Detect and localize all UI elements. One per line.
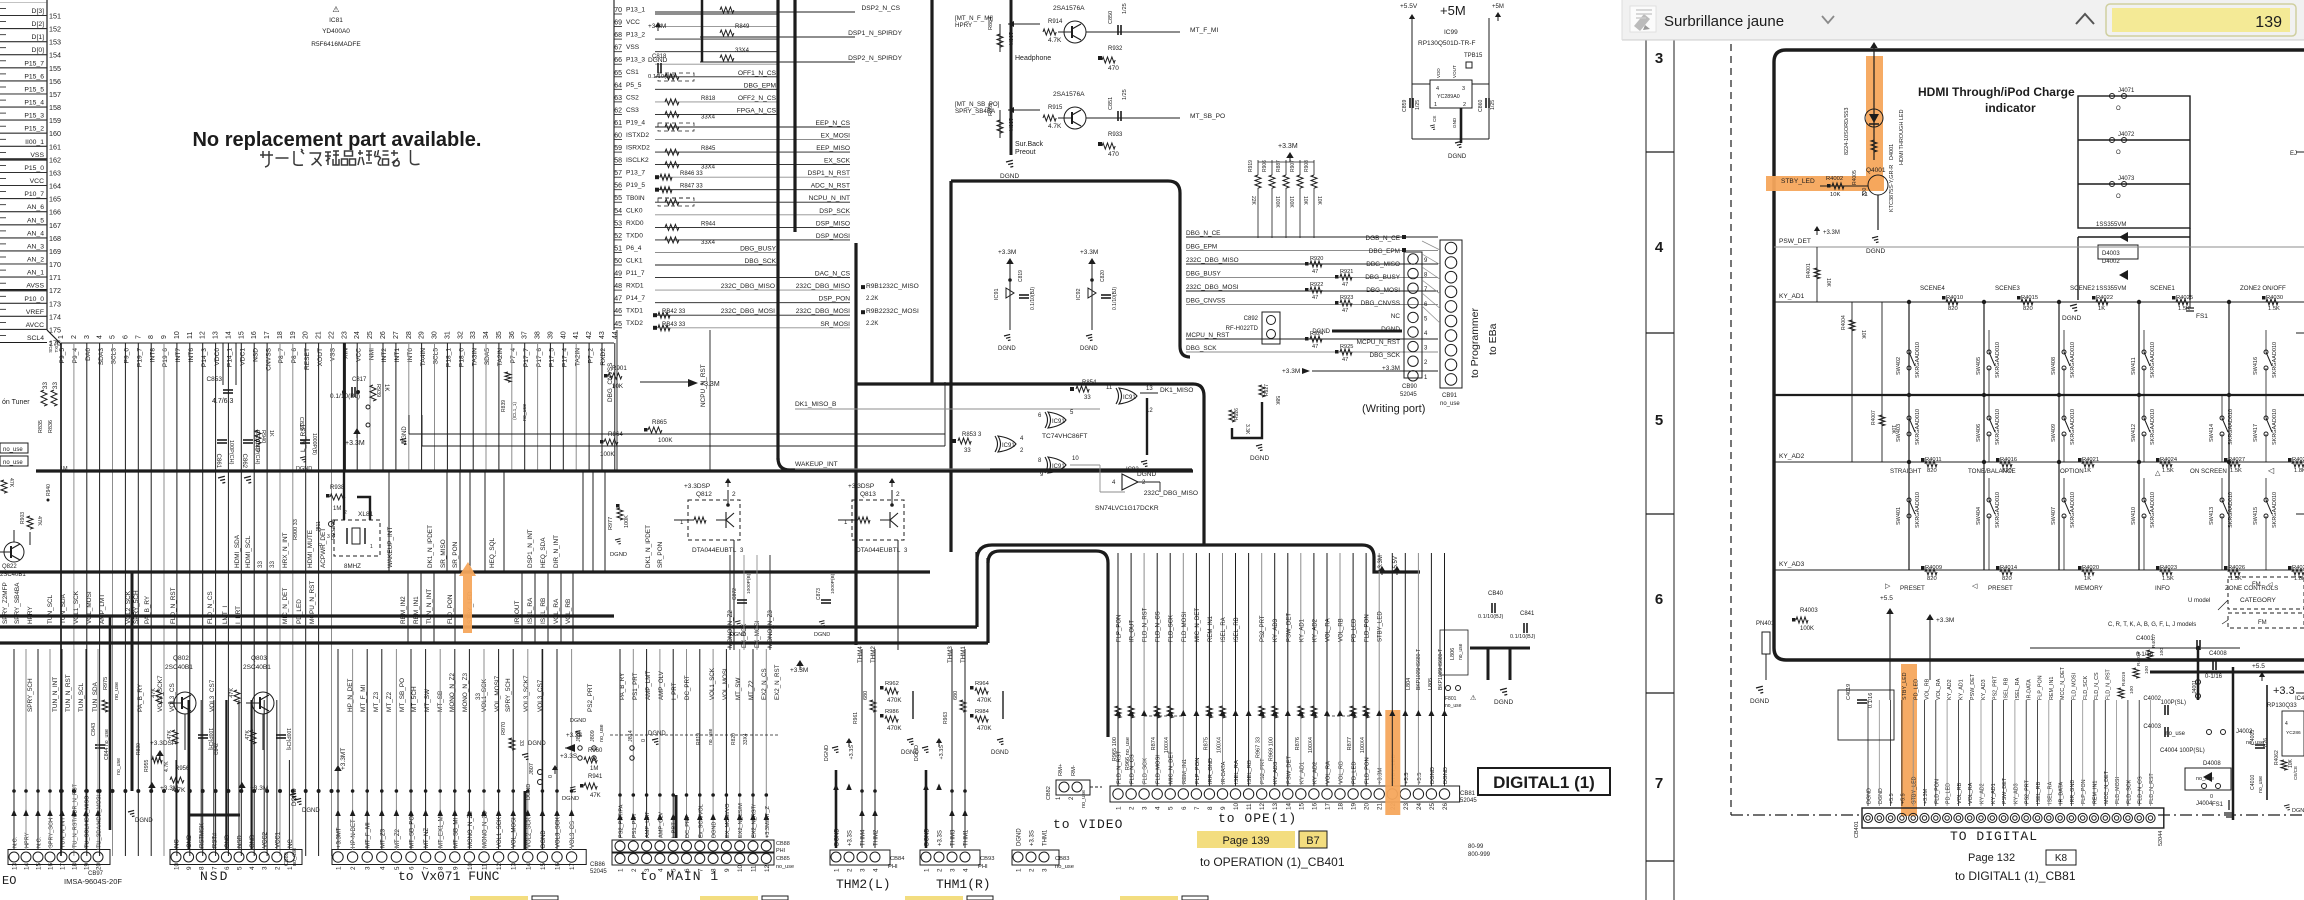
- svg-text:64: 64: [614, 82, 622, 89]
- svg-text:100X4: 100X4: [1164, 737, 1170, 753]
- svg-text:P13_2: P13_2: [626, 32, 645, 39]
- svg-text:NMI: NMI: [368, 348, 375, 360]
- svg-text:AN_5: AN_5: [27, 217, 44, 224]
- svg-text:IC40: IC40: [2295, 696, 2304, 702]
- svg-text:+5.5: +5.5: [1900, 793, 1906, 804]
- svg-text:C, R, T, K, A, B, G, F, L, J m: C, R, T, K, A, B, G, F, L, J models: [2108, 622, 2196, 628]
- svg-text:PHI: PHI: [978, 864, 988, 870]
- svg-text:SW402: SW402: [1896, 357, 1902, 375]
- svg-text:R933: R933: [1108, 132, 1123, 138]
- svg-text:THM2(L): THM2(L): [836, 877, 891, 892]
- svg-text:DGND: DGND: [991, 750, 1009, 756]
- svg-text:SDA4: SDA4: [48, 341, 53, 353]
- svg-text:VOL_RB: VOL_RB: [1925, 678, 1931, 700]
- svg-text:100X4: 100X4: [1360, 737, 1366, 753]
- svg-text:XL81: XL81: [358, 511, 374, 518]
- svg-text:U model: U model: [2188, 598, 2210, 604]
- svg-text:232C_DBG_MOSI: 232C_DBG_MOSI: [1186, 284, 1239, 291]
- svg-text:no_use: no_use: [3, 447, 23, 453]
- svg-text:6: 6: [1655, 591, 1663, 608]
- svg-text:2: 2: [274, 866, 281, 870]
- svg-text:VOL_RA: VOL_RA: [1968, 782, 1974, 804]
- svg-text:FLD_N_CS: FLD_N_CS: [2094, 672, 2100, 700]
- svg-text:DGND: DGND: [562, 796, 579, 802]
- svg-text:FLD_PON: FLD_PON: [1365, 757, 1371, 784]
- svg-text:SKRGAAD010: SKRGAAD010: [1915, 492, 1921, 528]
- svg-text:(Writing port): (Writing port): [1362, 403, 1425, 415]
- svg-text:R864: R864: [608, 431, 623, 438]
- svg-text:+5.5: +5.5: [1417, 773, 1423, 784]
- svg-text:173: 173: [49, 299, 61, 308]
- svg-text:17: 17: [1325, 802, 1332, 810]
- svg-text:4.7/6.3: 4.7/6.3: [212, 398, 234, 405]
- svg-text:+3.3M: +3.3M: [1080, 249, 1098, 256]
- svg-text:3.3K: 3.3K: [1244, 424, 1250, 435]
- svg-text:10K: 10K: [1825, 278, 1831, 288]
- svg-text:44: 44: [612, 331, 619, 339]
- svg-text:R940: R940: [46, 484, 52, 496]
- svg-text:IR_OUT: IR_OUT: [514, 600, 521, 624]
- svg-text:ISEL_RB: ISEL_RB: [1247, 760, 1253, 784]
- svg-text:47K: 47K: [36, 516, 42, 526]
- svg-text:DBG_CNVSS: DBG_CNVSS: [1361, 300, 1400, 307]
- svg-text:ACPWR_DET: ACPWR_DET: [320, 528, 327, 568]
- svg-text:to Vx071 FUNC: to Vx071 FUNC: [398, 869, 500, 884]
- svg-text:46: 46: [614, 308, 622, 315]
- svg-text:D4003: D4003: [2102, 251, 2120, 257]
- svg-text:PHI: PHI: [776, 848, 786, 854]
- svg-text:SN74LVC1G17DCKR: SN74LVC1G17DCKR: [1095, 505, 1159, 512]
- svg-text:SCL3: SCL3: [111, 348, 118, 365]
- svg-text:P15_3: P15_3: [24, 113, 44, 120]
- svg-text:KY_AD1: KY_AD1: [1779, 293, 1805, 300]
- svg-text:DGND: DGND: [1878, 788, 1884, 804]
- svg-text:SPRY_SB4BA: SPRY_SB4BA: [14, 582, 21, 624]
- svg-text:232C_DBG_MISO: 232C_DBG_MISO: [796, 283, 850, 290]
- svg-text:AMP_LMT: AMP_LMT: [645, 671, 652, 700]
- svg-text:470K: 470K: [977, 697, 992, 704]
- svg-text:24: 24: [354, 331, 361, 339]
- svg-text:100K: 100K: [1274, 196, 1280, 208]
- svg-text:47K: 47K: [590, 793, 601, 799]
- svg-text:DSP1_N_INT: DSP1_N_INT: [527, 529, 534, 568]
- svg-text:VOL_RB: VOL_RB: [1339, 618, 1345, 642]
- svg-text:FLD_N_RST: FLD_N_RST: [1143, 607, 1149, 642]
- svg-text:Q812: Q812: [696, 491, 712, 498]
- svg-text:+3.3S: +3.3S: [1030, 830, 1036, 846]
- svg-text:P17_5: P17_5: [549, 348, 556, 367]
- svg-text:100: 100: [2159, 648, 2165, 656]
- svg-text:VOL_RA: VOL_RA: [1936, 678, 1942, 700]
- svg-text:P9_0: P9_0: [124, 348, 131, 364]
- svg-text:P7_2: P7_2: [587, 348, 594, 364]
- svg-text:SW414: SW414: [2209, 424, 2215, 442]
- svg-text:58K: 58K: [1274, 396, 1280, 406]
- svg-text:no_use: no_use: [1440, 401, 1460, 407]
- svg-text:PD_LED: PD_LED: [1946, 783, 1952, 804]
- svg-text:AMP_OLV: AMP_OLV: [658, 670, 665, 700]
- svg-text:SKRGAAD010: SKRGAAD010: [1995, 342, 2001, 378]
- svg-text:C873: C873: [816, 588, 822, 600]
- svg-text:J4072: J4072: [2118, 132, 2135, 138]
- svg-text:0: 0: [641, 739, 647, 742]
- svg-text:13: 13: [1146, 386, 1153, 392]
- svg-text:20: 20: [303, 331, 310, 339]
- svg-text:7: 7: [1655, 775, 1663, 792]
- svg-text:P15_6: P15_6: [24, 73, 44, 80]
- svg-text:HEQ_SDA: HEQ_SDA: [540, 537, 547, 568]
- svg-text:174: 174: [49, 312, 61, 321]
- svg-text:HDMI Through/iPod Charge: HDMI Through/iPod Charge: [1918, 85, 2075, 99]
- svg-text:SKRGAAD010: SKRGAAD010: [2272, 492, 2278, 528]
- svg-text:R865: R865: [652, 419, 667, 426]
- svg-text:47K: 47K: [245, 730, 251, 740]
- svg-text:R818: R818: [701, 96, 716, 102]
- svg-text:R923: R923: [1340, 295, 1353, 301]
- svg-text:IC91: IC91: [1002, 443, 1015, 449]
- svg-text:33: 33: [269, 560, 276, 568]
- svg-text:1SS355VM: 1SS355VM: [2096, 286, 2126, 292]
- svg-text:R919: R919: [1248, 160, 1254, 172]
- svg-text:EX_MOSI: EX_MOSI: [754, 620, 761, 648]
- svg-text:DGN: DGN: [2292, 808, 2304, 814]
- svg-text:2: 2: [350, 866, 357, 870]
- svg-text:INFO: INFO: [2155, 585, 2170, 592]
- svg-text:820: 820: [2002, 468, 2012, 474]
- svg-text:NSD: NSD: [252, 348, 259, 362]
- svg-text:DGND: DGND: [712, 822, 718, 838]
- svg-text:65: 65: [614, 70, 622, 77]
- svg-text:J809: J809: [590, 730, 596, 742]
- svg-text:J4073: J4073: [2118, 176, 2135, 182]
- svg-text:172: 172: [49, 286, 61, 295]
- svg-text:DSP1_N_RST: DSP1_N_RST: [807, 170, 850, 177]
- svg-text:No replacement part available.: No replacement part available.: [192, 129, 481, 151]
- svg-text:C841: C841: [1520, 611, 1535, 617]
- svg-text:P13_7: P13_7: [626, 170, 645, 177]
- svg-text:HP-N-DET: HP-N-DET: [351, 819, 357, 848]
- svg-text:TXD0: TXD0: [626, 232, 643, 239]
- svg-text:DSP_MOSI: DSP_MOSI: [816, 233, 850, 240]
- svg-text:CB85: CB85: [776, 856, 790, 862]
- svg-text:33X4: 33X4: [701, 114, 716, 120]
- svg-text:156: 156: [49, 77, 61, 86]
- svg-text:RP130Q501D-TR-F: RP130Q501D-TR-F: [1418, 40, 1475, 47]
- svg-text:10K: 10K: [1302, 196, 1308, 206]
- svg-text:1M: 1M: [60, 466, 68, 472]
- svg-text:D[3]: D[3]: [32, 8, 45, 15]
- svg-text:R4005: R4005: [1852, 170, 1858, 185]
- svg-text:VSS: VSS: [30, 152, 44, 159]
- svg-text:31: 31: [444, 331, 451, 339]
- svg-text:MCPU_N_RST: MCPU_N_RST: [309, 581, 316, 624]
- svg-text:SW412: SW412: [2131, 424, 2137, 442]
- svg-text:SPRY_5CH: SPRY_5CH: [133, 590, 140, 624]
- svg-text:R4004: R4004: [1841, 315, 1847, 330]
- svg-text:32: 32: [457, 331, 464, 339]
- svg-text:+3.3MT: +3.3MT: [337, 827, 343, 848]
- svg-text:3: 3: [262, 866, 269, 870]
- svg-text:7: 7: [1194, 806, 1201, 810]
- svg-text:24: 24: [1416, 802, 1423, 810]
- svg-text:YD400A0: YD400A0: [322, 28, 350, 35]
- svg-text:14: 14: [525, 862, 532, 870]
- svg-text:R4017: R4017: [2151, 634, 2157, 648]
- svg-text:SKRGAAD010: SKRGAAD010: [1995, 492, 2001, 528]
- svg-text:3: 3: [860, 868, 867, 872]
- svg-text:9: 9: [186, 866, 193, 870]
- svg-text:Q802: Q802: [173, 655, 189, 662]
- svg-text:R908: R908: [1304, 160, 1310, 172]
- svg-text:KY_AD2: KY_AD2: [1980, 783, 1986, 804]
- svg-text:R875: R875: [1203, 737, 1209, 750]
- svg-text:155: 155: [49, 64, 61, 73]
- svg-text:1: 1: [924, 868, 931, 872]
- svg-text:PN401: PN401: [1756, 621, 1775, 627]
- svg-text:FLD_PON: FLD_PON: [1365, 614, 1371, 642]
- svg-text:C851: C851: [1108, 97, 1114, 110]
- svg-text:TU_SCL/HDR_MISO: TU_SCL/HDR_MISO: [85, 795, 91, 848]
- svg-text:J4004: J4004: [2196, 801, 2213, 807]
- svg-text:D4008: D4008: [2203, 761, 2221, 767]
- svg-text:680: 680: [953, 691, 959, 700]
- svg-text:KY_AD3: KY_AD3: [1981, 679, 1987, 700]
- svg-text:RP130Q33: RP130Q33: [2267, 703, 2297, 709]
- svg-text:DGND: DGND: [2062, 315, 2081, 322]
- svg-text:1SS355VM: 1SS355VM: [2096, 222, 2126, 228]
- svg-text:153: 153: [49, 38, 61, 47]
- svg-text:IC91: IC91: [994, 288, 1000, 300]
- svg-text:162: 162: [49, 155, 61, 164]
- svg-text:157: 157: [49, 90, 61, 99]
- svg-text:6: 6: [122, 335, 129, 339]
- svg-text:SPRY_5CH: SPRY_5CH: [505, 678, 512, 712]
- svg-text:C4010: C4010: [2250, 775, 2256, 790]
- svg-text:IC81: IC81: [329, 17, 343, 24]
- svg-text:+3.3M: +3.3M: [1278, 143, 1298, 150]
- svg-text:DGND: DGND: [824, 745, 830, 761]
- svg-text:EX2_N_RST/: EX2_N_RST/: [752, 804, 758, 838]
- svg-text:I_PRT: I_PRT: [671, 682, 678, 700]
- svg-text:P6_4: P6_4: [626, 245, 642, 252]
- svg-text:R4003: R4003: [1800, 608, 1818, 614]
- svg-text:27: 27: [393, 331, 400, 339]
- svg-text:PD_LED: PD_LED: [1352, 761, 1358, 784]
- svg-text:820: 820: [1927, 468, 1937, 474]
- svg-text:MT_SW: MT_SW: [735, 677, 742, 700]
- svg-text:O: O: [2116, 150, 2121, 156]
- svg-text:THM3: THM3: [951, 829, 957, 846]
- svg-text:D4002: D4002: [2102, 259, 2120, 265]
- svg-text:TA2IN: TA2IN: [497, 348, 504, 366]
- svg-text:to MAIN 1: to MAIN 1: [640, 869, 719, 884]
- svg-text:TXD1: TXD1: [626, 308, 643, 315]
- svg-text:ISEL_RB: ISEL_RB: [540, 598, 547, 624]
- svg-text:SW407: SW407: [2051, 507, 2057, 525]
- svg-text:INT8: INT8: [149, 348, 156, 363]
- svg-text:15: 15: [1298, 802, 1305, 810]
- svg-text:R849: R849: [735, 24, 750, 30]
- svg-text:2SC40B1: 2SC40B1: [165, 664, 193, 671]
- svg-text:+3.3M: +3.3M: [160, 785, 178, 792]
- svg-text:THM4: THM4: [857, 646, 864, 663]
- svg-text:FLD_SCK: FLD_SCK: [1169, 615, 1175, 642]
- svg-text:C892: C892: [1244, 316, 1259, 322]
- svg-text:FLD_N_CS: FLD_N_CS: [207, 591, 214, 624]
- svg-text:158: 158: [49, 103, 61, 112]
- svg-text:SR_MISO: SR_MISO: [440, 539, 447, 568]
- svg-text:SKRGAAD010: SKRGAAD010: [2070, 492, 2076, 528]
- svg-text:TUN_SDA: TUN_SDA: [60, 593, 67, 624]
- svg-text:MT_Z2: MT_Z2: [748, 680, 755, 700]
- svg-text:4: 4: [379, 866, 386, 870]
- svg-text:45: 45: [614, 321, 622, 328]
- svg-text:MCC_N_DET: MCC_N_DET: [2060, 666, 2066, 700]
- svg-text:INT2: INT2: [381, 348, 388, 363]
- svg-text:MIC_N_DET: MIC_N_DET: [1195, 608, 1201, 642]
- svg-text:11: 11: [187, 332, 194, 339]
- svg-text:R4001: R4001: [1806, 263, 1812, 278]
- svg-text:INT7: INT7: [175, 348, 182, 363]
- svg-text:8224-10SORD/S53: 8224-10SORD/S53: [1844, 108, 1850, 155]
- svg-text:R830: R830: [136, 743, 142, 755]
- svg-text:+3.3M: +3.3M: [345, 440, 365, 447]
- svg-text:TU_SDA/HDR_MOSI: TU_SDA/HDR_MOSI: [97, 794, 103, 848]
- svg-text:R907: R907: [1290, 160, 1296, 172]
- svg-text:no_use: no_use: [776, 864, 794, 870]
- svg-text:4.7K: 4.7K: [1048, 37, 1062, 44]
- svg-text:R938: R938: [330, 485, 345, 491]
- svg-text:1: 1: [58, 335, 65, 339]
- svg-text:ISEL_RA: ISEL_RA: [527, 597, 534, 624]
- svg-text:P14_7: P14_7: [626, 295, 645, 302]
- svg-text:FS1: FS1: [2196, 313, 2208, 320]
- svg-text:RXD1: RXD1: [626, 283, 644, 290]
- svg-text:DGND: DGND: [1443, 767, 1449, 784]
- svg-text:PSW_DET: PSW_DET: [1286, 613, 1292, 642]
- svg-text:5: 5: [1168, 806, 1175, 810]
- svg-text:SPRY_5CH: SPRY_5CH: [27, 678, 34, 712]
- svg-text:P19_7: P19_7: [137, 348, 144, 367]
- svg-text:FLD_MOSI: FLD_MOSI: [2072, 673, 2078, 700]
- svg-text:58: 58: [614, 158, 622, 165]
- svg-text:O: O: [2116, 106, 2121, 112]
- svg-text:EX_MOSI/VO: EX_MOSI/VO: [725, 803, 731, 838]
- svg-text:21: 21: [316, 331, 323, 339]
- svg-text:FLP_PON: FLP_PON: [2081, 779, 2087, 804]
- svg-text:3: 3: [950, 868, 957, 872]
- svg-text:ISCLK2: ISCLK2: [626, 157, 649, 164]
- svg-text:no_use: no_use: [292, 848, 298, 866]
- svg-text:47: 47: [1342, 308, 1348, 314]
- svg-text:+5.5: +5.5: [2252, 663, 2265, 670]
- svg-text:PS2_PRT: PS2_PRT: [1992, 675, 1998, 700]
- svg-text:2: 2: [1463, 102, 1466, 108]
- svg-text:2SA1576A: 2SA1576A: [1053, 5, 1085, 12]
- svg-text:no_use: no_use: [1445, 703, 1462, 709]
- svg-text:DGND: DGND: [1137, 471, 1156, 478]
- svg-text:23: 23: [1403, 802, 1410, 810]
- svg-text:STBY_LED: STBY_LED: [1902, 672, 1908, 700]
- svg-text:P8_6: P8_6: [291, 348, 298, 364]
- svg-text:DSP2_N_CS: DSP2_N_CS: [862, 5, 901, 12]
- svg-text:AMP_LMT: AMP_LMT: [645, 811, 651, 838]
- svg-text:CB91: CB91: [1442, 393, 1458, 399]
- svg-text:14: 14: [1285, 802, 1292, 810]
- svg-text:DK1_N_IPDET: DK1_N_IPDET: [645, 525, 652, 568]
- svg-text:R4002: R4002: [1826, 176, 1843, 182]
- svg-text:CNVSS: CNVSS: [265, 347, 272, 370]
- svg-text:0.1/10(BJ): 0.1/10(BJ): [330, 393, 360, 400]
- svg-text:ISEL_RA: ISEL_RA: [2015, 677, 2021, 700]
- svg-text:VDC1: VDC1: [240, 348, 247, 366]
- svg-text:VOL_RB: VOL_RB: [565, 599, 572, 624]
- svg-text:20: 20: [96, 862, 103, 870]
- svg-text:1.5K: 1.5K: [2162, 468, 2174, 474]
- svg-text:61: 61: [614, 120, 622, 127]
- svg-text:0.1/10(BJ): 0.1/10(BJ): [1112, 287, 1118, 310]
- svg-text:10: 10: [1233, 802, 1240, 810]
- svg-text:5: 5: [110, 335, 117, 339]
- svg-text:100K: 100K: [1288, 196, 1294, 208]
- svg-text:4: 4: [97, 335, 104, 339]
- svg-text:NC: NC: [175, 839, 181, 848]
- svg-text:60: 60: [614, 133, 622, 140]
- svg-text:R927: R927: [1264, 384, 1270, 396]
- svg-text:C842: C842: [214, 743, 220, 755]
- svg-text:VSS: VSS: [330, 347, 337, 361]
- svg-text:62: 62: [614, 107, 622, 114]
- svg-text:1.5K: 1.5K: [2268, 306, 2280, 312]
- svg-text:R922: R922: [1310, 282, 1323, 288]
- svg-text:O: O: [2116, 194, 2121, 200]
- svg-text:R846 33: R846 33: [680, 171, 703, 177]
- svg-text:470K: 470K: [887, 697, 902, 704]
- svg-text:15: 15: [238, 331, 245, 339]
- svg-text:P10_0: P10_0: [24, 296, 44, 303]
- svg-text:VOL_RB: VOL_RB: [1957, 782, 1963, 804]
- svg-text:to OPERATION (1)_CB401: to OPERATION (1)_CB401: [1200, 855, 1345, 869]
- svg-text:DGND: DGND: [526, 784, 532, 800]
- svg-text:34: 34: [483, 331, 490, 339]
- svg-text:DK1_MISO_B: DK1_MISO_B: [795, 401, 837, 408]
- svg-text:ISEL_RA: ISEL_RA: [1234, 760, 1240, 784]
- svg-text:YC286: YC286: [2286, 730, 2301, 736]
- svg-text:DBG_SCK: DBG_SCK: [744, 258, 776, 265]
- svg-text:1: 1: [370, 544, 373, 550]
- svg-text:4: 4: [1655, 239, 1664, 256]
- svg-text:NSD: NSD: [200, 869, 229, 884]
- svg-text:166: 166: [49, 208, 61, 217]
- svg-text:NCPU_N_INT: NCPU_N_INT: [809, 195, 850, 202]
- svg-text:PS1_PRT: PS1_PRT: [632, 672, 639, 700]
- svg-text:no_use: no_use: [1081, 790, 1087, 808]
- svg-text:STBY_LED: STBY_LED: [1781, 178, 1815, 185]
- svg-text:2: 2: [732, 491, 736, 498]
- svg-text:TPB15: TPB15: [1464, 53, 1483, 59]
- svg-text:1.8K: 1.8K: [2294, 468, 2304, 474]
- svg-text:+3.3S: +3.3S: [938, 830, 944, 846]
- svg-text:VOL_RA: VOL_RA: [1326, 761, 1332, 784]
- svg-text:CE: CE: [1432, 116, 1437, 122]
- svg-text:8: 8: [1207, 806, 1214, 810]
- svg-text:820: 820: [2002, 576, 2012, 582]
- svg-text:OFF2_N_CS: OFF2_N_CS: [738, 95, 777, 102]
- svg-text:3: 3: [1462, 86, 1465, 92]
- svg-text:no_use: no_use: [708, 728, 714, 745]
- svg-text:IRR_GND: IRR_GND: [1208, 758, 1214, 784]
- svg-text:EX2_N_CS/M: EX2_N_CS/M: [738, 803, 744, 838]
